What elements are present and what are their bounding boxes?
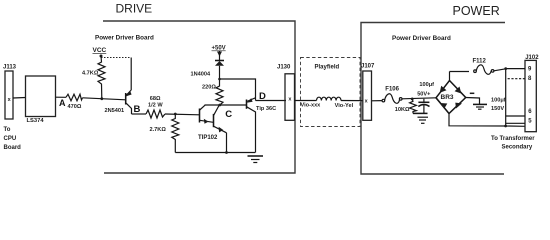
svg-text:+50V: +50V [212,46,226,52]
svg-text:F106: F106 [385,87,399,93]
svg-text:Board: Board [4,145,22,151]
svg-text:To: To [4,127,11,133]
svg-text:Playfield: Playfield [315,65,340,71]
svg-text:50V+: 50V+ [417,91,431,97]
svg-text:J130: J130 [277,65,291,71]
svg-text:68Ω: 68Ω [150,96,161,102]
svg-text:2N5401: 2N5401 [105,108,125,114]
svg-text:Secondary: Secondary [502,145,533,151]
svg-text:F112: F112 [473,59,487,65]
svg-text:CPU: CPU [4,136,17,142]
svg-text:Vio-Yel: Vio-Yel [335,103,354,109]
svg-text:10KΩ: 10KΩ [395,107,410,113]
svg-text:DRIVE: DRIVE [116,2,153,16]
svg-text:A: A [59,98,66,108]
svg-text:Tip 36C: Tip 36C [256,106,276,112]
svg-text:B: B [134,104,141,115]
svg-text:VCC: VCC [93,47,107,54]
svg-text:4.7KΩ: 4.7KΩ [82,71,99,77]
svg-text:Power Driver Board: Power Driver Board [392,35,451,42]
svg-text:LS374: LS374 [27,118,45,124]
svg-text:C: C [225,109,232,120]
svg-text:100μf: 100μf [491,98,506,104]
svg-text:100μf: 100μf [419,82,434,88]
svg-text:TIP102: TIP102 [198,135,218,141]
svg-text:150V: 150V [491,106,504,112]
svg-text:220Ω: 220Ω [202,85,216,91]
svg-text:POWER: POWER [453,4,500,18]
svg-text:BR3: BR3 [441,94,454,101]
svg-text:Vio-xxx: Vio-xxx [301,103,322,109]
svg-text:J113: J113 [3,64,17,70]
svg-text:Power Driver Board: Power Driver Board [95,35,154,42]
svg-text:To Transformer: To Transformer [491,136,535,142]
svg-text:470Ω: 470Ω [68,104,82,110]
svg-text:1N4004: 1N4004 [191,72,211,78]
svg-text:J107: J107 [361,64,375,70]
svg-text:1/2 W: 1/2 W [148,102,163,108]
svg-text:2.7KΩ: 2.7KΩ [150,127,167,133]
